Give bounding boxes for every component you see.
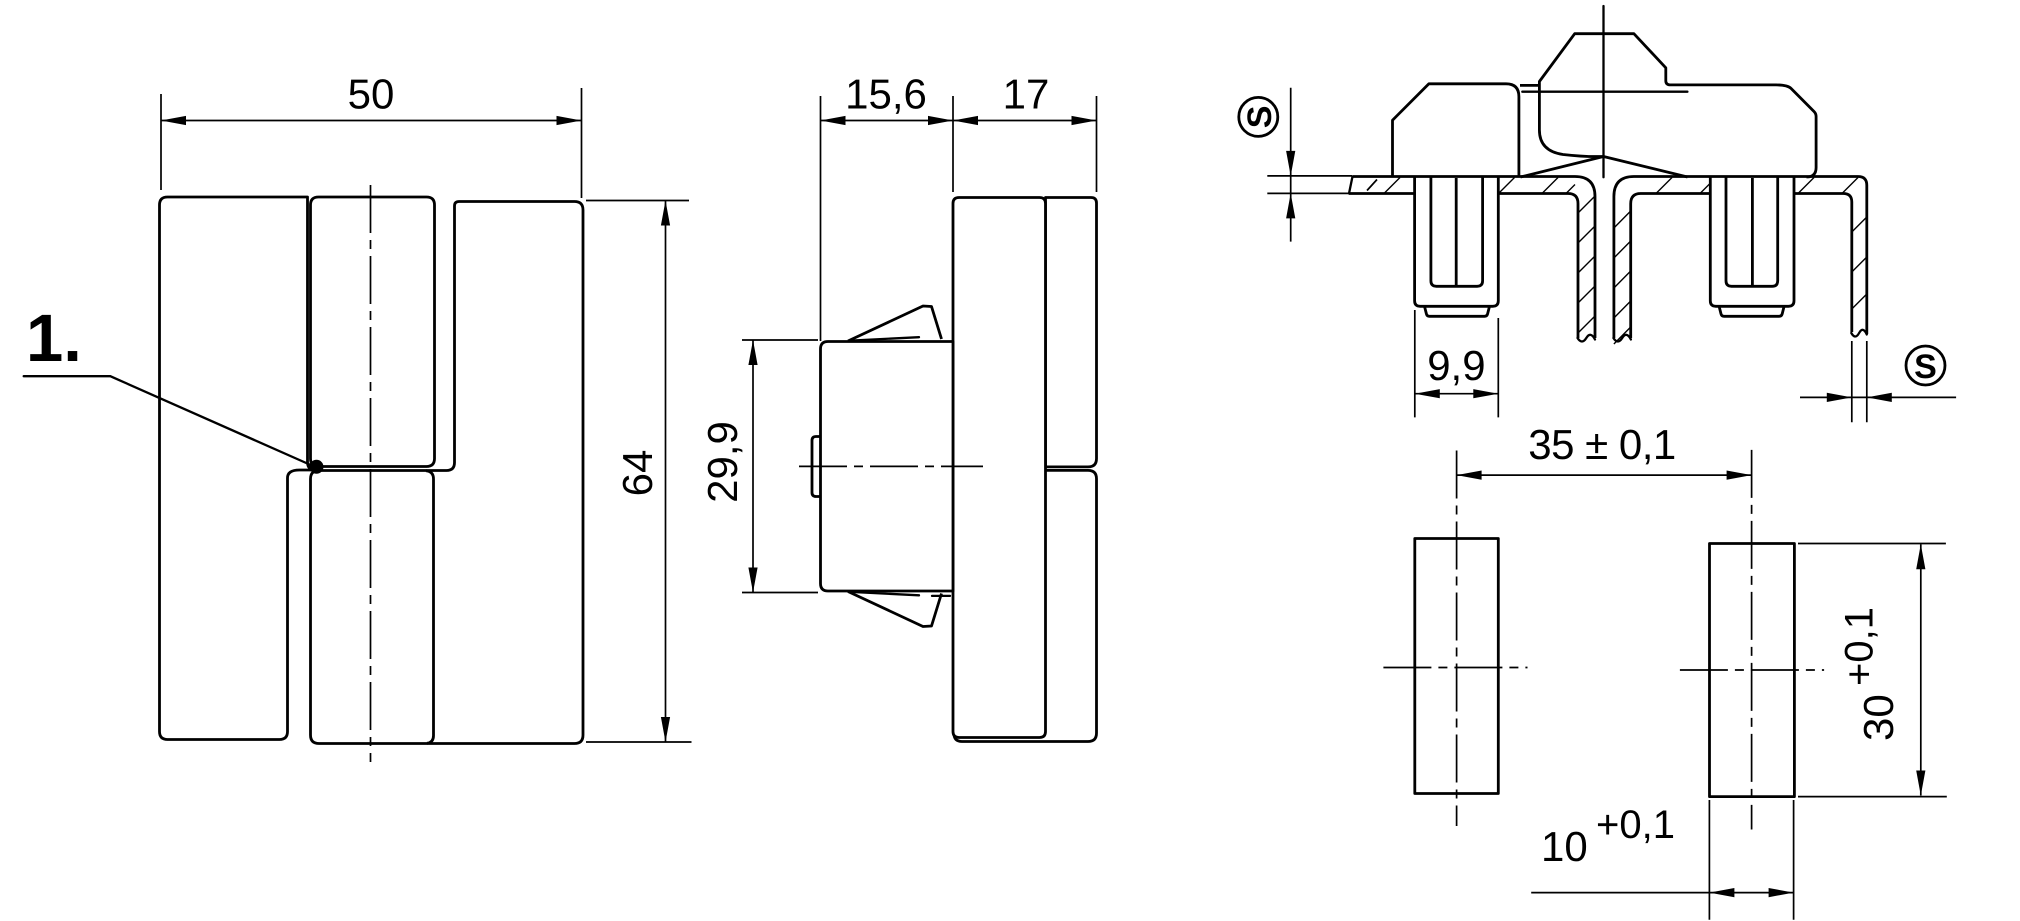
right leg break line xyxy=(1613,335,1631,342)
thickness extension lines left xyxy=(1267,176,1352,194)
dimension 50 extension lines xyxy=(161,88,582,198)
left foot centre rib xyxy=(1455,178,1458,286)
panel hatching xyxy=(1384,178,1858,194)
svg-text:64: 64 xyxy=(614,450,661,497)
svg-text:1.: 1. xyxy=(26,301,82,376)
roof joint segment xyxy=(1520,84,1539,87)
svg-text:50: 50 xyxy=(348,71,395,118)
upper spring flap xyxy=(848,306,942,341)
section centre mark xyxy=(1602,6,1604,177)
peak left curl curve xyxy=(1539,130,1603,157)
flange break line xyxy=(1851,330,1867,337)
svg-text:15,6: 15,6 xyxy=(845,71,927,118)
left leg break line xyxy=(1578,335,1596,342)
dimension 10 line xyxy=(1531,892,1793,894)
hidden ridge line xyxy=(1522,91,1687,93)
dimension 64 line xyxy=(665,201,667,743)
flange thickness extension lines xyxy=(1852,341,1867,422)
right foot centre rib xyxy=(1751,178,1754,286)
dimension 30 line xyxy=(1920,544,1922,795)
thickness symbol S left xyxy=(1239,97,1278,136)
lower spring flap xyxy=(848,592,942,627)
leader dot xyxy=(310,460,324,474)
hinge right leaf plate with lower knuckle xyxy=(311,202,584,744)
roof right house xyxy=(1671,85,1817,177)
lower flap inner edge xyxy=(850,592,950,596)
left leg hatching xyxy=(1578,196,1595,333)
panel top surface with curl bends xyxy=(1353,177,1867,339)
flat leaf plate (side view) xyxy=(953,198,1046,738)
left cutout rectangle xyxy=(1415,539,1499,794)
dimension 17 line xyxy=(953,120,1097,122)
dimension 9,9 line xyxy=(1415,393,1499,395)
left foot detent tab xyxy=(1425,306,1490,316)
dimension 17 extension line xyxy=(1096,96,1098,192)
leaf edge V lines xyxy=(1521,157,1688,178)
dimension 15,6 line xyxy=(821,120,954,122)
dimension 29,9 line xyxy=(752,340,754,593)
right cutout vertical centreline xyxy=(1751,450,1753,830)
thickness dimension line left xyxy=(1290,88,1292,242)
dimension 35 line xyxy=(1457,474,1752,476)
flange hatching xyxy=(1852,217,1867,309)
left snap foot xyxy=(1415,177,1499,307)
fold line of lower knuckle xyxy=(426,471,434,744)
flange thickness dimension line xyxy=(1800,396,1956,398)
svg-text:29,9: 29,9 xyxy=(699,421,746,503)
svg-text:S: S xyxy=(1914,348,1937,386)
dimension 15,6 extension lines xyxy=(821,96,954,341)
dimension 30 extension lines xyxy=(1798,544,1947,797)
svg-text:+0,1: +0,1 xyxy=(1596,803,1675,847)
right cutout horizontal centreline xyxy=(1680,669,1824,671)
svg-text:+0,1: +0,1 xyxy=(1838,607,1882,686)
side view centerline xyxy=(799,465,983,467)
rear leaf lower half (side view) xyxy=(954,470,1097,741)
dimension 10 extension lines xyxy=(1709,800,1793,920)
left cutout horizontal centreline xyxy=(1383,667,1527,669)
panel broken left end xyxy=(1349,177,1353,194)
panel bottom surface with curl bends xyxy=(1349,194,1852,339)
right cutout rectangle xyxy=(1710,544,1795,797)
right foot detent tab xyxy=(1719,306,1784,316)
hinge pin centerline xyxy=(370,185,372,762)
rear leaf upper half (side view) xyxy=(1046,198,1097,467)
roof centre peak xyxy=(1539,34,1670,130)
dimension 9,9 extension lines xyxy=(1415,310,1499,417)
svg-text:30: 30 xyxy=(1855,694,1902,741)
svg-text:9,9: 9,9 xyxy=(1427,342,1485,389)
left cutout vertical centreline xyxy=(1456,451,1458,827)
wedge body of bent leaf xyxy=(821,342,954,592)
left foot screw slot xyxy=(1431,177,1483,287)
right foot screw slot xyxy=(1726,177,1778,287)
dimension 64 extension lines xyxy=(586,201,692,743)
right snap foot xyxy=(1710,177,1794,307)
svg-text:10: 10 xyxy=(1541,823,1588,870)
dimension 29,9 extension lines xyxy=(742,340,818,593)
svg-text:S: S xyxy=(1241,106,1279,129)
hinge upper knuckle xyxy=(311,197,435,467)
mounting tab on wedge xyxy=(812,437,953,497)
svg-text:17: 17 xyxy=(1003,71,1050,118)
leader line for item 1 xyxy=(24,376,313,466)
upper flap inner edge xyxy=(850,337,919,340)
roof left house xyxy=(1393,84,1519,177)
right leg hatching xyxy=(1614,211,1631,344)
dimension 50 line xyxy=(161,120,582,122)
hinge left leaf plate xyxy=(160,197,316,740)
thickness symbol S right xyxy=(1906,346,1945,385)
svg-text:35 ± 0,1: 35 ± 0,1 xyxy=(1528,421,1676,468)
